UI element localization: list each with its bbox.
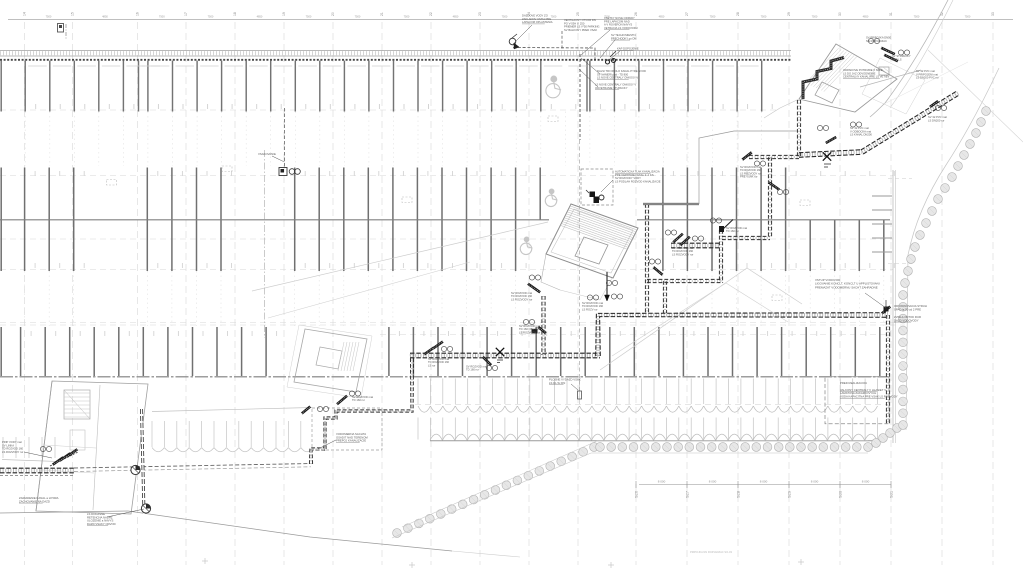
svg-text:8 000: 8 000 xyxy=(709,480,717,484)
svg-text:4850: 4850 xyxy=(659,15,665,19)
grid horizontals xyxy=(0,175,893,177)
svg-text:SPAD la 50 od 2 PRE: SPAD la 50 od 2 PRE xyxy=(894,307,921,311)
heavy diagonal to NE xyxy=(862,93,958,152)
svg-text:7500: 7500 xyxy=(306,15,312,19)
svg-text:7500: 7500 xyxy=(404,15,410,19)
building top-right xyxy=(799,44,897,112)
svg-text:PRED REALIZACIOU: PRED REALIZACIOU xyxy=(840,381,867,385)
bent arrow at 749 xyxy=(742,152,751,159)
corner symbol at 886,310 xyxy=(882,307,890,314)
svg-text:DAZD VODOVODY: DAZD VODOVODY xyxy=(894,318,919,322)
utility main horizontal center xyxy=(410,354,600,358)
symbol cluster main line west xyxy=(424,348,434,355)
dimension line xyxy=(639,484,891,486)
dotted boundary band xyxy=(393,529,402,538)
svg-text:30: 30 xyxy=(838,12,842,16)
stall number ticks xyxy=(35,104,37,109)
bent arrow at 770 xyxy=(769,182,780,189)
cluster loop west bars xyxy=(337,396,347,404)
cross marks bottom xyxy=(409,564,415,566)
lower row edge line xyxy=(430,440,873,442)
svg-text:33: 33 xyxy=(991,12,995,16)
svg-text:15: 15 xyxy=(71,12,75,16)
svg-text:TD 160 rur: TD 160 rur xyxy=(352,398,365,402)
svg-text:4850: 4850 xyxy=(257,15,263,19)
band edge lines xyxy=(392,453,868,538)
leader lines top xyxy=(513,25,532,44)
building mid-low xyxy=(294,329,367,392)
svg-text:ZACHOVANIE NA DAZD: ZACHOVANIE NA DAZD xyxy=(19,499,50,503)
svg-text:LS PODLAH ROZVOD KANALIZACIE: LS PODLAH ROZVOD KANALIZACIE xyxy=(615,179,661,183)
svg-text:7500: 7500 xyxy=(761,15,767,19)
svg-text:CENTRALNY KANAL PRE LS VETIEV: CENTRALNY KANAL PRE LS VETIEV xyxy=(843,75,890,79)
svg-text:31: 31 xyxy=(889,12,893,16)
junction circles east run xyxy=(606,280,611,285)
svg-text:LS DL 5x DN: LS DL 5x DN xyxy=(549,381,565,385)
top-left bench mark xyxy=(58,24,64,33)
dash-dot line x264 xyxy=(264,150,266,338)
svg-text:7500: 7500 xyxy=(812,15,818,19)
cluster riser543 mid xyxy=(523,319,528,324)
manhole 1 xyxy=(131,465,140,474)
central pump room dashed rect xyxy=(581,169,613,205)
svg-text:7500: 7500 xyxy=(46,15,52,19)
faint stall continuations xyxy=(24,112,26,167)
building left xyxy=(36,381,148,514)
svg-text:PRE LS: PRE LS xyxy=(892,57,902,61)
svg-text:VSAKOVANIE: VSAKOVANIE xyxy=(258,152,276,156)
svg-text:PREPOJ KANALIZACIE: PREPOJ KANALIZACIE xyxy=(336,439,366,443)
svg-text:KAP DOPOJENIE: KAP DOPOJENIE xyxy=(617,47,639,51)
manhole 2 xyxy=(141,504,150,513)
building central xyxy=(546,204,638,278)
svg-text:4850: 4850 xyxy=(102,15,108,19)
svg-text:26: 26 xyxy=(634,12,638,16)
band B row line xyxy=(0,219,549,221)
cluster top-right bars xyxy=(881,48,895,54)
cluster c16 xyxy=(850,122,855,127)
top dashed leader path xyxy=(513,48,595,60)
svg-text:LS ROZVODY rur: LS ROZVODY rur xyxy=(672,252,693,256)
svg-text:PRECHODKY po DN: PRECHODKY po DN xyxy=(611,36,636,40)
svg-text:LS DN200 PVC rur: LS DN200 PVC rur xyxy=(916,76,939,80)
svg-text:16: 16 xyxy=(136,12,140,16)
svg-text:TD 160 rur: TD 160 rur xyxy=(726,229,739,233)
parking band C verticals xyxy=(0,327,2,376)
svg-text:20: 20 xyxy=(331,12,335,16)
svg-text:S28: S28 xyxy=(736,490,741,498)
svg-text:17: 17 xyxy=(184,12,188,16)
left edge stalls xyxy=(2,437,4,458)
utility step up to east run xyxy=(598,315,888,356)
handicap glyphs xyxy=(546,84,560,98)
road curve outer xyxy=(870,0,948,117)
parking band B verticals xyxy=(0,168,2,272)
svg-text:VODA KAPACITNA PRE VSAK LS ROZ: VODA KAPACITNA PRE VSAK LS ROZVODY xyxy=(840,395,898,399)
X at 827 xyxy=(823,152,831,160)
svg-text:S30: S30 xyxy=(838,490,843,498)
top annotation symbol xyxy=(509,38,516,45)
svg-text:23: 23 xyxy=(478,12,482,16)
svg-text:7500: 7500 xyxy=(710,15,716,19)
pump station blob xyxy=(590,192,596,198)
svg-text:7500: 7500 xyxy=(355,15,361,19)
svg-text:LS ROZVODY rur: LS ROZVODY rur xyxy=(2,450,23,454)
branch hatch run xyxy=(671,244,719,248)
svg-text:LAPACOM OPLASTENIA: LAPACOM OPLASTENIA xyxy=(522,20,553,24)
band C row line xyxy=(0,376,888,378)
svg-text:LS NOVE CENTRALY ONKOSY V: LS NOVE CENTRALY ONKOSY V xyxy=(597,76,638,80)
svg-text:7500: 7500 xyxy=(914,15,920,19)
cluster c15 xyxy=(826,137,836,143)
lower stalls left xyxy=(152,408,312,412)
riser x543 xyxy=(542,296,545,355)
svg-text:7500: 7500 xyxy=(965,15,971,19)
utility west connector xyxy=(74,464,311,469)
cluster c10 bars xyxy=(673,234,683,243)
loop service rect xyxy=(312,408,382,450)
parking band A verticals xyxy=(0,61,2,112)
arrow symbol xyxy=(483,357,491,365)
site boundary line xyxy=(0,511,452,551)
central risers xyxy=(646,204,649,313)
svg-text:PREMAZAT VODOMERNU SACHT ZAHRA: PREMAZAT VODOMERNU SACHT ZAHRADNE xyxy=(815,285,878,289)
utility left loop xyxy=(311,354,412,464)
svg-text:7500: 7500 xyxy=(159,15,165,19)
road curve inner xyxy=(906,68,999,430)
svg-text:27: 27 xyxy=(685,12,689,16)
svg-text:21: 21 xyxy=(380,12,384,16)
X crossing xyxy=(496,348,504,356)
downpipe x141 xyxy=(142,409,145,514)
svg-text:TD 160 rur: TD 160 rur xyxy=(466,368,479,372)
building drop x799 xyxy=(798,100,801,157)
svg-text:7500: 7500 xyxy=(208,15,214,19)
text in dashed service zone xyxy=(825,377,889,424)
svg-text:SV BALKONY PRED VSAK: SV BALKONY PRED VSAK xyxy=(564,28,597,32)
dashed drop line x284 xyxy=(284,108,286,167)
cluster riser543 top xyxy=(528,284,540,293)
cluster c9 bent arrow xyxy=(653,267,662,275)
svg-text:7500: 7500 xyxy=(551,15,557,19)
ramp diagonals xyxy=(252,222,548,291)
svg-text:7500: 7500 xyxy=(502,15,508,19)
svg-text:S27: S27 xyxy=(685,490,690,498)
svg-text:8 000: 8 000 xyxy=(658,480,666,484)
heavy east-west run xyxy=(799,152,862,155)
svg-text:4850: 4850 xyxy=(863,15,869,19)
svg-text:LS ROZVODY rur: LS ROZVODY rur xyxy=(519,330,540,334)
svg-text:S29: S29 xyxy=(787,490,792,498)
cluster far west xyxy=(53,457,64,464)
svg-text:18: 18 xyxy=(233,12,237,16)
svg-text:8 000: 8 000 xyxy=(811,480,819,484)
svg-text:28: 28 xyxy=(736,12,740,16)
right margin stalls xyxy=(872,195,892,197)
band A aisle marks xyxy=(28,65,47,67)
top ruler line xyxy=(8,19,1013,21)
svg-text:PRIPOJKA NN ROZVADZAC SO-03: PRIPOJKA NN ROZVADZAC SO-03 xyxy=(690,550,732,554)
central building wall duct xyxy=(643,203,699,205)
svg-text:LS rur: LS rur xyxy=(428,363,435,367)
stall dashed markers xyxy=(107,180,117,186)
svg-text:19: 19 xyxy=(282,12,286,16)
cluster riser607 xyxy=(587,295,592,300)
thin column line xyxy=(699,131,797,204)
svg-text:LS ROZV rur: LS ROZV rur xyxy=(582,307,598,311)
svg-text:8 000: 8 000 xyxy=(760,480,768,484)
svg-text:LS KANAL DN200: LS KANAL DN200 xyxy=(850,133,872,137)
grid verticals xyxy=(24,22,26,565)
svg-text:14: 14 xyxy=(23,12,27,16)
lower stall rows right xyxy=(417,379,419,405)
svg-text:VETRACIA LS VODOVODU: VETRACIA LS VODOVODU xyxy=(604,26,638,30)
dark dashed wall line xyxy=(0,59,791,61)
utility main horizontal west xyxy=(0,469,74,473)
cluster c17 xyxy=(935,105,940,110)
svg-text:NN ROZVADZAC: NN ROZVADZAC xyxy=(866,39,887,43)
svg-text:S31: S31 xyxy=(889,490,894,498)
svg-text:25: 25 xyxy=(576,12,580,16)
flag at 721 xyxy=(721,220,733,232)
svg-text:8 000: 8 000 xyxy=(862,480,870,484)
top hatch band xyxy=(0,50,791,52)
dark stair path on top-right building xyxy=(803,58,844,100)
svg-text:29: 29 xyxy=(787,12,791,16)
riser x607 arrow xyxy=(606,272,608,296)
svg-text:PRE VSAK rur: PRE VSAK rur xyxy=(740,175,758,179)
svg-text:LS DN200 rur: LS DN200 rur xyxy=(928,118,945,122)
svg-text:S26: S26 xyxy=(634,490,639,498)
svg-text:22: 22 xyxy=(429,12,433,16)
svg-text:4850: 4850 xyxy=(453,15,459,19)
dark flags near band top xyxy=(606,60,610,64)
dashed drop line x580 xyxy=(579,54,581,140)
svg-text:ODVETRANIE STUPACKY: ODVETRANIE STUPACKY xyxy=(595,86,628,90)
svg-text:DAZD VSAKY ODVOD: DAZD VSAKY ODVOD xyxy=(87,522,116,526)
svg-text:LS ROZVODY rur: LS ROZVODY rur xyxy=(511,297,532,301)
utility east drop xyxy=(887,315,890,424)
